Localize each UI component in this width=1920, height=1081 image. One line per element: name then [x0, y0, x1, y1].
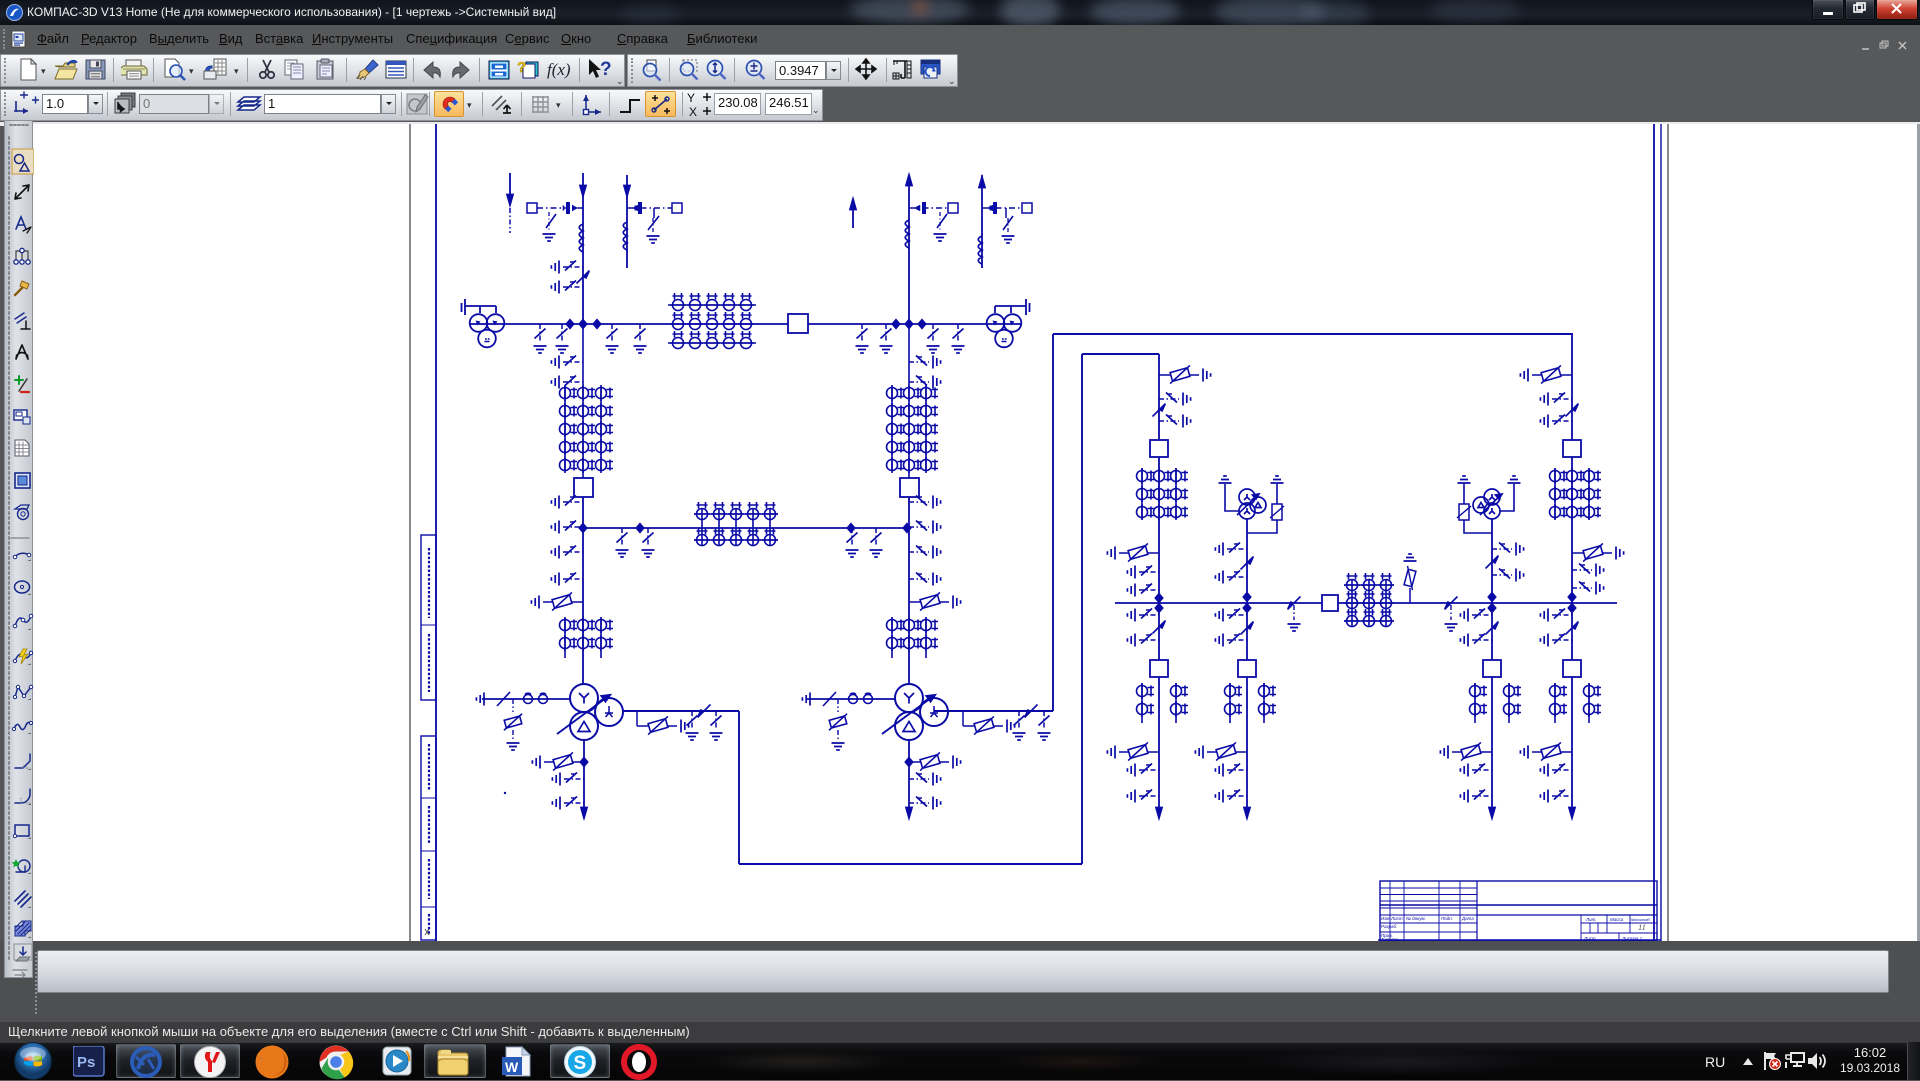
wire W2 to T3	[582, 497, 584, 684]
cursor mark	[425, 929, 429, 935]
T4 HV input wire	[807, 698, 895, 700]
arrester FV11	[1440, 742, 1492, 760]
feeder W4 lower earthing	[909, 356, 941, 369]
feeder R2 with transformer T5	[1246, 519, 1248, 818]
line arrow L1	[509, 173, 511, 198]
feeder line W4	[908, 183, 910, 324]
arrester FV6	[962, 711, 964, 726]
drawing frame left border	[435, 122, 437, 941]
breaker Q5	[1150, 660, 1168, 677]
PT tap wire	[537, 207, 583, 209]
Skype (open)	[550, 1044, 610, 1078]
capacitor bank C5b (2x3)	[892, 618, 926, 658]
svg-text:W: W	[505, 1059, 519, 1075]
tray	[1705, 1054, 1725, 1070]
breaker Q6	[1238, 660, 1256, 677]
margin column boxes	[421, 535, 436, 940]
svg-text:11: 11	[1638, 922, 1646, 932]
capacitor bank C11 (3x3)	[1555, 468, 1589, 519]
svg-text:?: ?	[600, 59, 612, 80]
svg-text:№ докум.: № докум.	[1406, 916, 1426, 921]
T4 MV output wire	[934, 334, 1573, 711]
Photoshop	[73, 1046, 105, 1077]
Chrome	[317, 1044, 355, 1080]
Kompas (open)	[116, 1044, 176, 1078]
arrester FV4	[532, 752, 584, 770]
breaker Q3	[900, 478, 919, 497]
earthing stack left of W2	[551, 496, 583, 509]
Firefox	[253, 1044, 291, 1080]
title block	[1380, 881, 1657, 941]
capacitor pairs C10	[1475, 683, 1509, 723]
bus W1 330kV	[469, 323, 1022, 325]
svg-text:Изм: Изм	[1381, 916, 1389, 921]
T6 neutral grounds	[1464, 484, 1514, 533]
T3 LV down wire	[583, 740, 585, 818]
capacitor bank C6 (3x3)	[1142, 468, 1176, 519]
bus section disconnector QS2	[1288, 597, 1301, 610]
transformer T1 (bus left end)	[470, 314, 505, 347]
capacitor bank C9 (3x3)	[1344, 580, 1394, 626]
breaker Q1 on bus W1	[788, 314, 808, 333]
PT tap wire 4	[982, 207, 1022, 209]
T4 LV down wire	[908, 740, 910, 818]
drawing frame right border (double)	[1653, 122, 1655, 941]
bus W6 earthing drops	[616, 528, 629, 557]
Word	[500, 1045, 534, 1078]
disconnector QS1	[577, 271, 590, 284]
capacitor pairs C7	[1142, 683, 1176, 723]
arrester FV10 on stub	[1409, 588, 1411, 603]
arrester FV12	[1520, 742, 1572, 760]
capacitor CC1	[564, 202, 569, 214]
capacitor bank C2 (5x3)	[565, 324, 601, 478]
Yandex (open)	[180, 1044, 240, 1078]
earthing T4 LV	[909, 773, 941, 786]
disconnector cluster on T3 MV	[686, 711, 699, 740]
WMP	[381, 1045, 415, 1078]
Folder (open)	[424, 1044, 486, 1078]
svg-text:Лист: Лист	[1390, 916, 1403, 921]
arrester FV1b	[909, 592, 961, 610]
svg-text:Лит.: Лит.	[1585, 917, 1597, 922]
coil L3	[623, 222, 627, 250]
svg-text:f(x): f(x)	[547, 60, 571, 79]
svg-text:Y: Y	[687, 91, 695, 105]
earthing stack right of W4	[909, 496, 941, 509]
arrester FV5	[837, 699, 839, 712]
capacitor bank C4 (2x5)	[694, 509, 778, 545]
svg-text:Разраб.: Разраб.	[1381, 924, 1397, 929]
breaker Q4	[1150, 440, 1168, 457]
arrester FV9	[1195, 742, 1247, 760]
capacitor pairs C12	[1555, 683, 1589, 723]
transformer T4	[882, 684, 948, 740]
capacitor bank C5 (2x3)	[565, 618, 601, 658]
T3 MV output wire	[623, 354, 1159, 864]
arrester FV8	[1107, 742, 1159, 760]
earthing switch on tap	[546, 214, 556, 228]
T5 neutral grounds	[1225, 484, 1277, 533]
CT pair	[524, 693, 548, 703]
feeder stub W5	[981, 175, 983, 268]
PT tap wire 2	[627, 207, 672, 209]
breaker Q7	[1322, 595, 1338, 611]
feeder R6	[1571, 334, 1573, 818]
arrester FV7	[909, 752, 961, 770]
coil L4b	[905, 220, 909, 248]
capacitor bank C1 (3x5)	[668, 305, 756, 343]
arrester FV3	[636, 711, 638, 726]
svg-text:S: S	[574, 1053, 587, 1074]
feeder R1	[1158, 354, 1160, 818]
earthing switch cluster W2	[551, 261, 583, 274]
svg-text:?: ?	[517, 59, 526, 76]
start orb	[12, 1041, 54, 1081]
line trap coil L2	[579, 224, 583, 252]
feeder stub W3	[626, 175, 628, 268]
arrester FV1	[531, 592, 583, 610]
bus earthing drops near W2	[534, 324, 547, 353]
svg-text:Ps: Ps	[77, 1054, 95, 1071]
junction marks bus W1	[579, 320, 586, 328]
breaker Q8	[1483, 660, 1501, 677]
ground flag right	[995, 299, 1030, 315]
capacitor pairs C8	[1230, 683, 1264, 723]
earthing T3 LV	[552, 773, 584, 786]
disconnector cluster on T4 MV	[1013, 711, 1026, 740]
bus earthing drops near W4	[856, 324, 869, 353]
wire W4 to T4	[908, 497, 910, 684]
svg-text:Масса: Масса	[1610, 917, 1624, 922]
breaker Q10	[1563, 660, 1581, 677]
svg-text:Подп.: Подп.	[1441, 916, 1453, 921]
transformer T2 (bus right end)	[987, 314, 1022, 347]
frame bottom	[1378, 939, 1661, 941]
bus W6	[583, 527, 907, 529]
svg-text:Дата: Дата	[1461, 916, 1474, 921]
disconnector QS3	[1445, 597, 1458, 610]
arrester FV2	[512, 699, 514, 712]
line arrow L4	[850, 199, 856, 210]
feeder R5 with transformer T6	[1491, 519, 1493, 818]
ground flag left	[462, 299, 497, 315]
feeder W2 lower earthing	[551, 356, 583, 369]
T3 HV input wire	[482, 698, 570, 700]
R1 below bus	[1127, 609, 1159, 622]
svg-text:X: X	[689, 105, 697, 119]
breaker Q9	[1563, 440, 1581, 457]
coil L5	[978, 236, 982, 264]
Opera	[621, 1044, 657, 1080]
capacitor bank C3 (5x3)	[892, 324, 926, 478]
box on tap	[527, 203, 537, 213]
bus W7 110kV	[1115, 602, 1617, 604]
transformer T3	[557, 684, 623, 740]
PT tap wire 3	[909, 207, 948, 209]
breaker Q2	[574, 478, 593, 497]
sheet page edges	[409, 122, 411, 941]
feeder line W2	[582, 173, 584, 324]
